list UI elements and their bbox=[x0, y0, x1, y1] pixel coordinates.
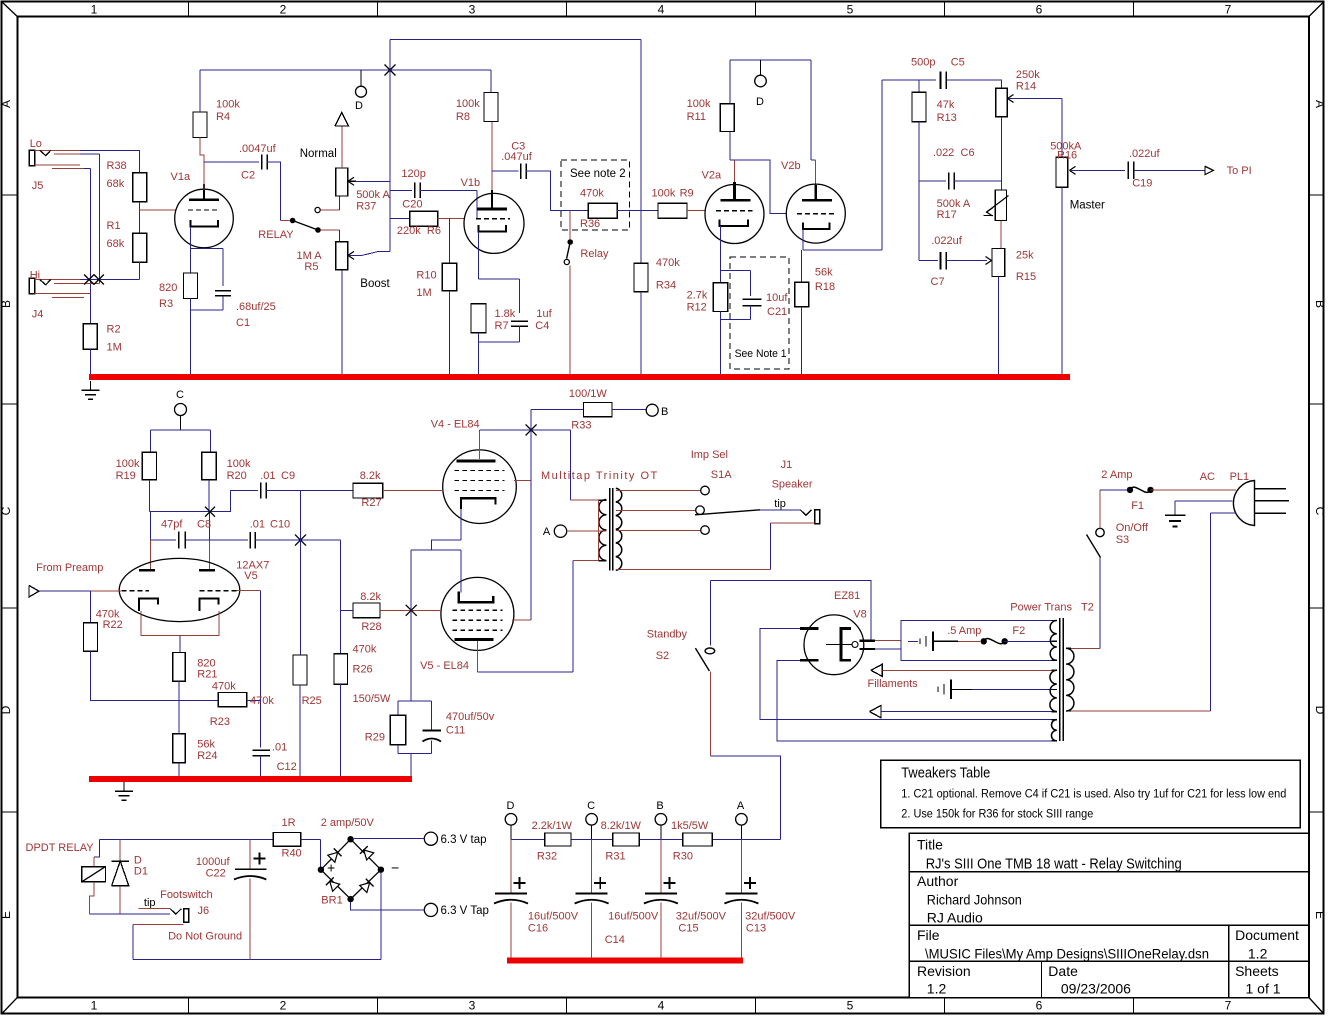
svg-text:D: D bbox=[355, 100, 363, 112]
svg-text:56k: 56k bbox=[815, 267, 833, 279]
svg-text:Speaker: Speaker bbox=[772, 479, 813, 491]
svg-text:tip: tip bbox=[774, 498, 786, 510]
svg-text:C20: C20 bbox=[402, 199, 422, 211]
svg-text:100k: 100k bbox=[216, 99, 240, 111]
svg-text:R27: R27 bbox=[361, 497, 381, 509]
svg-text:C1: C1 bbox=[236, 317, 250, 329]
svg-text:B: B bbox=[1313, 300, 1327, 308]
svg-text:R32: R32 bbox=[537, 850, 557, 862]
svg-text:R7: R7 bbox=[495, 320, 509, 332]
svg-text:C21: C21 bbox=[767, 306, 787, 318]
svg-text:470k: 470k bbox=[580, 188, 604, 200]
svg-text:Relay: Relay bbox=[580, 248, 609, 260]
svg-text:B: B bbox=[656, 800, 663, 812]
svg-text:100k: 100k bbox=[456, 98, 480, 110]
svg-text:.022: .022 bbox=[933, 147, 954, 159]
svg-text:V5 - EL84: V5 - EL84 bbox=[420, 660, 469, 672]
svg-text:C13: C13 bbox=[746, 923, 766, 935]
svg-text:R13: R13 bbox=[937, 112, 957, 124]
svg-text:100k: 100k bbox=[227, 458, 251, 470]
svg-text:100k: 100k bbox=[687, 98, 711, 110]
svg-text:RJ's SIII One TMB 18 watt - Re: RJ's SIII One TMB 18 watt - Relay Switch… bbox=[926, 857, 1182, 873]
svg-text:Document: Document bbox=[1235, 927, 1299, 943]
svg-text:R26: R26 bbox=[353, 663, 373, 675]
svg-text:R8: R8 bbox=[456, 111, 470, 123]
svg-text:File: File bbox=[917, 927, 940, 943]
svg-text:1: 1 bbox=[91, 3, 98, 17]
svg-text:R18: R18 bbox=[815, 281, 835, 293]
svg-text:C16: C16 bbox=[528, 923, 548, 935]
svg-text:R30: R30 bbox=[673, 850, 693, 862]
svg-text:R6: R6 bbox=[427, 225, 441, 237]
svg-text:R40: R40 bbox=[282, 847, 302, 859]
svg-text:150/5W: 150/5W bbox=[353, 693, 392, 705]
svg-text:Standby: Standby bbox=[647, 629, 688, 641]
svg-text:470uf/50v: 470uf/50v bbox=[446, 711, 495, 723]
svg-text:E: E bbox=[1313, 911, 1327, 919]
svg-text:J6: J6 bbox=[198, 905, 210, 917]
svg-text:C15: C15 bbox=[678, 923, 698, 935]
svg-text:R12: R12 bbox=[687, 302, 707, 314]
svg-text:D: D bbox=[507, 800, 515, 812]
svg-text:68k: 68k bbox=[107, 238, 125, 250]
svg-text:R24: R24 bbox=[197, 750, 217, 762]
svg-text:1 of 1: 1 of 1 bbox=[1246, 980, 1281, 996]
svg-text:J5: J5 bbox=[32, 180, 44, 192]
svg-text:Title: Title bbox=[917, 837, 943, 853]
svg-text:R17: R17 bbox=[937, 209, 957, 221]
svg-text:.5 Amp: .5 Amp bbox=[947, 625, 981, 637]
svg-text:32uf/500V: 32uf/500V bbox=[676, 910, 727, 922]
svg-text:1.2: 1.2 bbox=[927, 980, 947, 996]
svg-text:See Note 1: See Note 1 bbox=[735, 348, 787, 360]
svg-text:100k: 100k bbox=[652, 188, 676, 200]
svg-text:S1A: S1A bbox=[711, 469, 732, 481]
svg-text:120p: 120p bbox=[401, 168, 425, 180]
svg-text:EZ81: EZ81 bbox=[834, 590, 860, 602]
svg-text:See note 2: See note 2 bbox=[570, 168, 626, 180]
svg-text:C8: C8 bbox=[197, 519, 211, 531]
svg-text:R22: R22 bbox=[103, 619, 123, 631]
svg-text:C12: C12 bbox=[277, 761, 297, 773]
svg-text:8.2k: 8.2k bbox=[360, 470, 381, 482]
svg-text:8.2k: 8.2k bbox=[360, 591, 381, 603]
svg-text:R29: R29 bbox=[365, 732, 385, 744]
svg-text:R25: R25 bbox=[302, 695, 322, 707]
svg-text:D: D bbox=[0, 705, 13, 714]
svg-text:F1: F1 bbox=[1131, 500, 1144, 512]
svg-text:R23: R23 bbox=[210, 716, 230, 728]
svg-text:J4: J4 bbox=[32, 309, 44, 321]
svg-text:4: 4 bbox=[658, 999, 665, 1013]
svg-text:Richard Johnson: Richard Johnson bbox=[927, 891, 1022, 907]
svg-text:7: 7 bbox=[1225, 3, 1232, 17]
svg-text:C9: C9 bbox=[281, 470, 295, 482]
svg-text:RELAY: RELAY bbox=[258, 229, 294, 241]
svg-text:R9: R9 bbox=[680, 188, 694, 200]
svg-text:R3: R3 bbox=[159, 298, 173, 310]
svg-text:C10: C10 bbox=[270, 519, 290, 531]
svg-text:32uf/500V: 32uf/500V bbox=[745, 910, 796, 922]
svg-text:25k: 25k bbox=[1016, 249, 1034, 261]
svg-text:V1a: V1a bbox=[171, 171, 191, 183]
svg-text:V1b: V1b bbox=[461, 177, 481, 189]
svg-text:BR1: BR1 bbox=[321, 894, 342, 906]
svg-text:C2: C2 bbox=[241, 170, 255, 182]
svg-text:PL1: PL1 bbox=[1230, 471, 1250, 483]
svg-text:220k: 220k bbox=[397, 225, 421, 237]
svg-text:Footswitch: Footswitch bbox=[160, 889, 213, 901]
svg-text:1k5/5W: 1k5/5W bbox=[671, 820, 709, 832]
svg-text:D: D bbox=[756, 96, 764, 108]
svg-text:R34: R34 bbox=[656, 279, 676, 291]
svg-text:.68uf/25: .68uf/25 bbox=[236, 301, 276, 313]
svg-text:Revision: Revision bbox=[917, 963, 971, 979]
svg-text:1R: 1R bbox=[282, 817, 296, 829]
svg-text:470k: 470k bbox=[353, 644, 377, 656]
svg-text:F2: F2 bbox=[1012, 625, 1025, 637]
svg-text:D1: D1 bbox=[134, 865, 148, 877]
svg-text:Master: Master bbox=[1070, 200, 1105, 212]
svg-text:1: 1 bbox=[91, 999, 98, 1013]
svg-text:2.7k: 2.7k bbox=[687, 289, 708, 301]
svg-text:R36: R36 bbox=[580, 218, 600, 230]
svg-text:470k: 470k bbox=[212, 680, 236, 692]
svg-text:Imp Sel: Imp Sel bbox=[691, 449, 728, 461]
svg-text:T2: T2 bbox=[1081, 601, 1094, 613]
svg-text:1000uf: 1000uf bbox=[196, 856, 231, 868]
svg-text:R37: R37 bbox=[356, 201, 376, 213]
svg-text:Power Trans: Power Trans bbox=[1010, 601, 1072, 613]
svg-text:100k: 100k bbox=[116, 458, 140, 470]
svg-text:R15: R15 bbox=[1016, 271, 1036, 283]
svg-text:D: D bbox=[1313, 706, 1327, 715]
svg-text:1M: 1M bbox=[107, 342, 122, 354]
svg-text:100/1W: 100/1W bbox=[569, 388, 608, 400]
svg-text:Author: Author bbox=[917, 873, 959, 889]
svg-text:C11: C11 bbox=[446, 724, 465, 736]
svg-text:.0047uf: .0047uf bbox=[239, 143, 277, 155]
svg-text:R20: R20 bbox=[227, 470, 247, 482]
svg-text:C: C bbox=[176, 389, 184, 401]
svg-text:B: B bbox=[0, 300, 13, 308]
svg-text:16uf/500V: 16uf/500V bbox=[608, 910, 659, 922]
svg-text:68k: 68k bbox=[107, 178, 125, 190]
svg-text:.022uf: .022uf bbox=[1129, 148, 1161, 160]
svg-text:3: 3 bbox=[469, 999, 476, 1013]
svg-text:6: 6 bbox=[1036, 999, 1043, 1013]
svg-text:500k A: 500k A bbox=[356, 189, 390, 201]
svg-text:S2: S2 bbox=[656, 650, 669, 662]
svg-text:470k: 470k bbox=[656, 257, 680, 269]
svg-text:V4 - EL84: V4 - EL84 bbox=[431, 419, 480, 431]
svg-text:Tweakers Table: Tweakers Table bbox=[901, 766, 990, 782]
svg-text:Lo: Lo bbox=[30, 138, 42, 150]
svg-text:R14: R14 bbox=[1016, 81, 1036, 93]
svg-text:470k: 470k bbox=[250, 695, 274, 707]
svg-text:2. Use 150k for R36 for stock: 2. Use 150k for R36 for stock SIII range bbox=[901, 806, 1093, 820]
svg-text:1uf: 1uf bbox=[536, 308, 552, 320]
svg-text:Multitap Trinity OT: Multitap Trinity OT bbox=[541, 470, 659, 482]
svg-text:2 Amp: 2 Amp bbox=[1101, 469, 1132, 481]
svg-text:16uf/500V: 16uf/500V bbox=[528, 910, 579, 922]
svg-text:C5: C5 bbox=[951, 57, 965, 69]
svg-text:.022uf: .022uf bbox=[931, 235, 963, 247]
svg-text:5: 5 bbox=[847, 3, 854, 17]
svg-text:C19: C19 bbox=[1132, 178, 1152, 190]
svg-text:R19: R19 bbox=[116, 470, 136, 482]
svg-text:−: − bbox=[391, 860, 399, 876]
svg-text:C22: C22 bbox=[206, 868, 226, 880]
svg-text:R11: R11 bbox=[687, 111, 706, 123]
svg-text:47pf: 47pf bbox=[161, 519, 183, 531]
svg-text:V8: V8 bbox=[853, 609, 866, 621]
svg-text:C14: C14 bbox=[605, 934, 625, 946]
svg-text:1.2: 1.2 bbox=[1248, 946, 1268, 962]
svg-text:.01: .01 bbox=[250, 519, 265, 531]
svg-text:From Preamp: From Preamp bbox=[36, 562, 103, 574]
svg-text:E: E bbox=[0, 911, 13, 919]
svg-text:2 amp/50V: 2 amp/50V bbox=[321, 817, 375, 829]
svg-text:.01: .01 bbox=[272, 742, 287, 754]
svg-text:R33: R33 bbox=[571, 419, 591, 431]
svg-text:R2: R2 bbox=[107, 324, 121, 336]
svg-text:820: 820 bbox=[197, 657, 215, 669]
svg-text:1M: 1M bbox=[416, 287, 431, 299]
svg-text:1.8k: 1.8k bbox=[495, 308, 516, 320]
svg-text:500p: 500p bbox=[911, 57, 935, 69]
svg-text:J1: J1 bbox=[781, 459, 793, 471]
svg-text:B: B bbox=[661, 406, 668, 418]
svg-text:C7: C7 bbox=[931, 276, 945, 288]
svg-text:R1: R1 bbox=[107, 220, 121, 232]
svg-text:6.3 V Tap: 6.3 V Tap bbox=[441, 905, 489, 917]
svg-text:6: 6 bbox=[1036, 3, 1043, 17]
svg-text:\MUSIC Files\My Amp Designs\SI: \MUSIC Files\My Amp Designs\SIIIOneRelay… bbox=[925, 946, 1209, 962]
svg-text:10uf: 10uf bbox=[766, 292, 788, 304]
svg-text:.01: .01 bbox=[260, 470, 275, 482]
svg-text:Fillaments: Fillaments bbox=[868, 678, 919, 690]
svg-text:A: A bbox=[737, 800, 745, 812]
svg-text:C: C bbox=[1313, 507, 1327, 516]
svg-text:A: A bbox=[543, 526, 551, 538]
svg-text:A: A bbox=[1313, 100, 1327, 108]
svg-text:.047uf: .047uf bbox=[501, 151, 533, 163]
svg-text:R21: R21 bbox=[197, 669, 217, 681]
svg-text:1. C21 optional. Remove C4 if: 1. C21 optional. Remove C4 if C21 is use… bbox=[901, 787, 1286, 801]
svg-text:RJ Audio: RJ Audio bbox=[927, 910, 983, 926]
svg-text:C: C bbox=[587, 800, 595, 812]
svg-text:2: 2 bbox=[280, 3, 287, 17]
svg-text:Sheets: Sheets bbox=[1235, 963, 1279, 979]
svg-text:R4: R4 bbox=[216, 111, 230, 123]
svg-text:2: 2 bbox=[280, 999, 287, 1013]
svg-text:7: 7 bbox=[1225, 999, 1232, 1013]
svg-text:820: 820 bbox=[159, 282, 177, 294]
svg-text:R38: R38 bbox=[107, 160, 127, 172]
svg-text:V2a: V2a bbox=[702, 170, 722, 182]
svg-text:C4: C4 bbox=[535, 320, 549, 332]
svg-text:09/23/2006: 09/23/2006 bbox=[1061, 980, 1131, 996]
svg-text:DPDT RELAY: DPDT RELAY bbox=[26, 842, 95, 854]
svg-text:56k: 56k bbox=[197, 739, 215, 751]
svg-text:4: 4 bbox=[658, 3, 665, 17]
svg-text:V5: V5 bbox=[244, 570, 257, 582]
svg-text:47k: 47k bbox=[937, 99, 955, 111]
svg-text:R28: R28 bbox=[361, 621, 381, 633]
svg-text:R5: R5 bbox=[304, 261, 318, 273]
svg-text:AC: AC bbox=[1200, 471, 1215, 483]
svg-text:Boost: Boost bbox=[360, 278, 390, 290]
svg-text:5: 5 bbox=[847, 999, 854, 1013]
svg-text:Date: Date bbox=[1048, 963, 1078, 979]
svg-text:250k: 250k bbox=[1016, 69, 1040, 81]
svg-text:Do Not Ground: Do Not Ground bbox=[168, 931, 242, 943]
svg-text:C6: C6 bbox=[961, 147, 975, 159]
svg-text:3: 3 bbox=[469, 3, 476, 17]
svg-text:C: C bbox=[0, 506, 13, 515]
svg-text:Normal: Normal bbox=[300, 148, 337, 160]
svg-text:V2b: V2b bbox=[781, 160, 801, 172]
svg-text:To PI: To PI bbox=[1227, 165, 1252, 177]
svg-text:On/Off: On/Off bbox=[1116, 522, 1149, 534]
svg-text:2.2k/1W: 2.2k/1W bbox=[532, 820, 573, 832]
svg-text:R16: R16 bbox=[1057, 150, 1077, 162]
svg-text:S3: S3 bbox=[1116, 534, 1129, 546]
svg-text:6.3 V tap: 6.3 V tap bbox=[441, 834, 487, 846]
svg-text:R31: R31 bbox=[605, 850, 625, 862]
svg-text:tip: tip bbox=[144, 897, 156, 909]
svg-text:R10: R10 bbox=[416, 270, 436, 282]
svg-text:8.2k/1W: 8.2k/1W bbox=[601, 820, 642, 832]
svg-text:A: A bbox=[0, 100, 13, 108]
